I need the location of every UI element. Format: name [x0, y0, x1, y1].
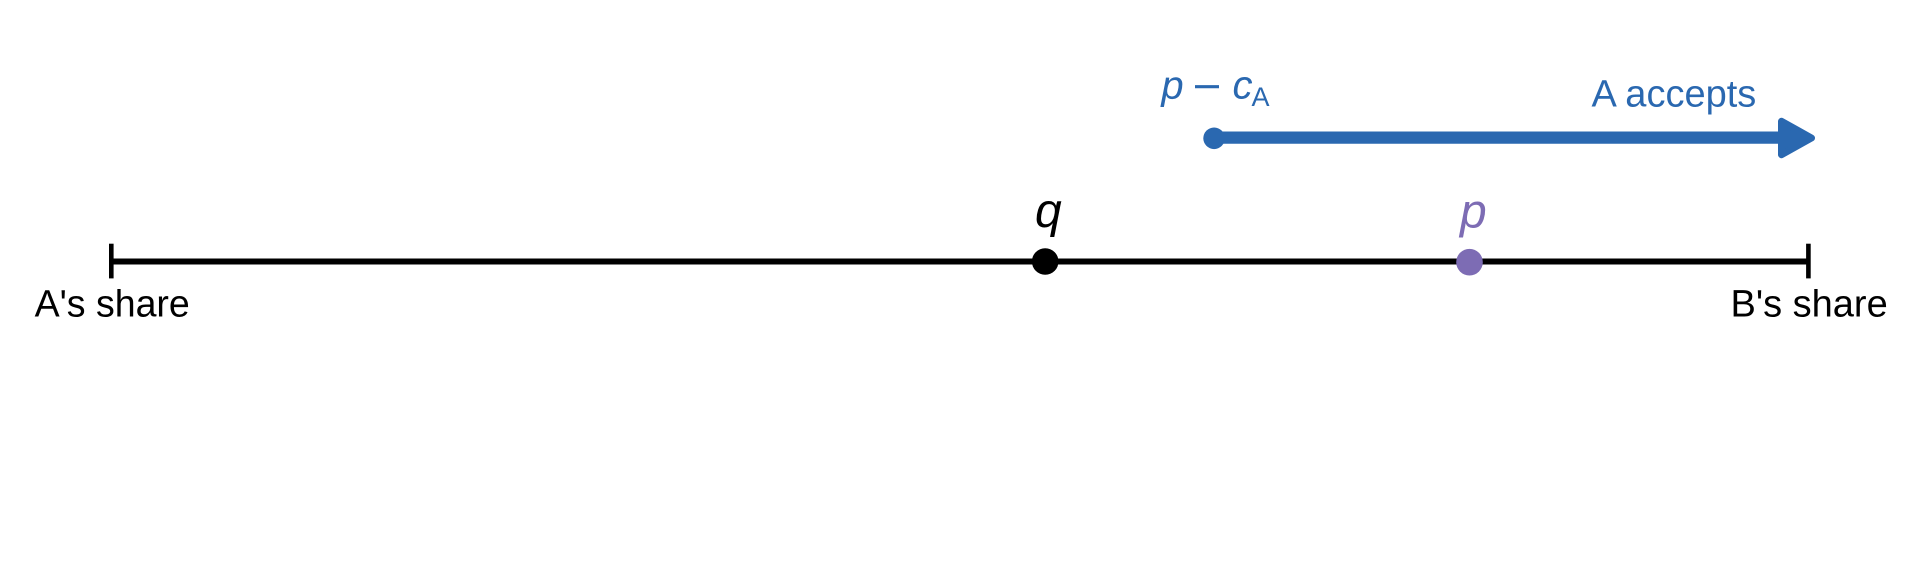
svg-text:c: c — [1233, 64, 1253, 108]
arrow head — [1782, 121, 1812, 154]
svg-text:q: q — [1035, 185, 1062, 238]
svg-text:A: A — [1252, 82, 1270, 112]
svg-text:A accepts: A accepts — [1592, 74, 1757, 116]
label p - cA : minus — [1195, 85, 1219, 88]
svg-text:p: p — [1160, 64, 1183, 108]
point p — [1456, 249, 1483, 276]
svg-text:A's share: A's share — [35, 284, 190, 326]
arrow shaft — [1214, 132, 1781, 144]
svg-text:p: p — [1458, 185, 1487, 238]
arrow start dot — [1203, 128, 1225, 150]
left tick — [109, 244, 114, 279]
point q — [1032, 248, 1059, 275]
right tick — [1806, 244, 1811, 279]
axis line — [111, 259, 1809, 265]
svg-text:B's share: B's share — [1731, 284, 1888, 326]
